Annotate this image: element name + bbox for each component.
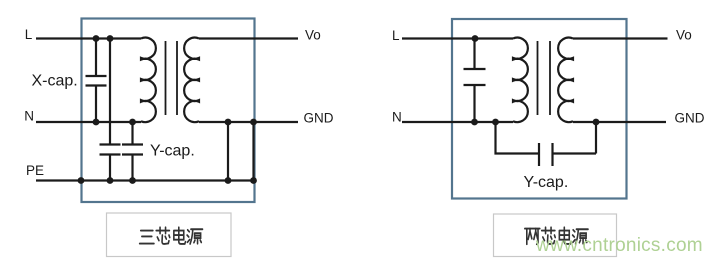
wire Vo (left)	[199, 37, 298, 39]
node N/Y-cap2	[129, 119, 136, 126]
svg-text:Vo: Vo	[305, 28, 321, 43]
node N/Cx	[471, 119, 478, 126]
capacitor Y-cap1 C2	[100, 145, 121, 181]
wire N (left)	[36, 121, 141, 123]
transformer T2 secondary winding	[558, 38, 573, 123]
三	[140, 231, 154, 244]
node GND/link1	[225, 119, 232, 126]
源	[573, 229, 588, 244]
芯	[156, 227, 170, 244]
svg-text:Vo: Vo	[676, 28, 692, 43]
node N/X-cap	[93, 119, 100, 126]
caption box left	[107, 213, 232, 257]
node N/Y-cap	[492, 119, 499, 126]
junction dots right circuit	[471, 35, 599, 125]
svg-text:Y-cap.: Y-cap.	[524, 174, 569, 191]
node GND/link2	[250, 119, 257, 126]
电	[559, 227, 571, 244]
wire N (right)	[402, 121, 513, 123]
caption box right	[494, 214, 617, 257]
两	[525, 229, 540, 245]
wire PE	[36, 179, 254, 181]
wire L to Y-cap1	[109, 39, 111, 144]
enclosure box left	[82, 19, 255, 203]
node GND/Y-cap	[593, 119, 600, 126]
transformer T1 primary winding	[141, 38, 156, 122]
caption text 两芯电源 (right)	[525, 227, 588, 244]
svg-text:GND: GND	[675, 111, 705, 126]
capacitor Y-cap2 C3	[122, 122, 143, 181]
transformer T1 core	[166, 41, 178, 115]
capacitor X-cap C1	[86, 39, 107, 123]
电	[174, 227, 186, 244]
wire GND to PE link 2 (on box edge)	[252, 122, 254, 181]
svg-text:GND: GND	[304, 111, 334, 126]
node L/Y-cap1	[107, 35, 114, 42]
transformer T1 secondary winding	[184, 38, 199, 123]
enclosure box right	[452, 19, 627, 199]
芯	[542, 227, 556, 244]
svg-text:N: N	[392, 110, 402, 125]
svg-text:Y-cap.: Y-cap.	[150, 143, 195, 160]
node PE/link1	[225, 177, 232, 184]
svg-text:PE: PE	[26, 163, 44, 178]
capacitor Cx (right input cap)	[464, 39, 486, 123]
node PE/box edge	[78, 177, 85, 184]
wire L (right)	[402, 37, 513, 39]
junction dots left circuit	[78, 35, 257, 184]
transformer T2 primary winding	[513, 38, 528, 122]
transformer T2 core	[538, 41, 551, 115]
wire GND to PE link 1	[227, 122, 229, 181]
svg-text:www.cntronics.com: www.cntronics.com	[535, 235, 703, 256]
源	[187, 229, 202, 244]
capacitor Y-cap (right) with link wires	[496, 122, 597, 166]
wire GND (right)	[573, 121, 666, 123]
node PE/Y-cap1	[107, 177, 114, 184]
svg-text:X-cap.: X-cap.	[32, 73, 78, 90]
node L/X-cap	[93, 35, 100, 42]
node PE/link2	[250, 177, 257, 184]
wire Vo (right)	[573, 37, 668, 39]
node L/Cx	[472, 35, 479, 42]
wire L (left)	[36, 37, 141, 39]
caption text 三芯电源 (left)	[140, 227, 203, 244]
svg-text:N: N	[24, 109, 34, 124]
svg-text:L: L	[25, 27, 33, 42]
svg-text:L: L	[392, 28, 400, 43]
node PE/Y-cap2	[129, 177, 136, 184]
wire GND (left)	[199, 121, 298, 123]
